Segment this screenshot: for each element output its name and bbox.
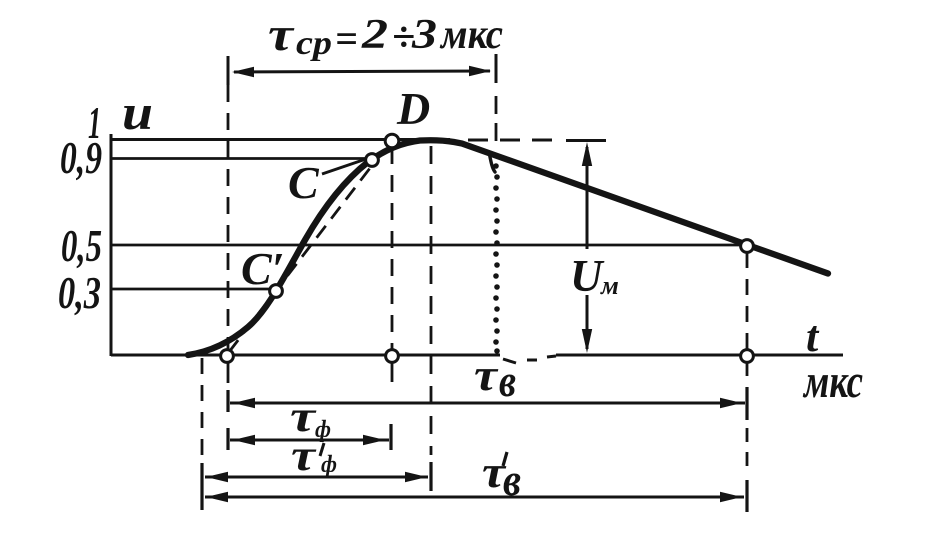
node circle on baseline at x=228 xyxy=(221,350,234,363)
x axis t (baseline) xyxy=(111,355,843,363)
svg-text:мкс: мкс xyxy=(439,12,503,58)
svg-text:0,5: 0,5 xyxy=(61,220,102,271)
tf' double arrow (row 3) xyxy=(205,476,428,479)
dashed vertical at 0.5 crossing x=747 xyxy=(746,252,749,380)
svg-text:τ: τ xyxy=(474,349,499,400)
tf double arrow (row 2) xyxy=(230,439,389,442)
svg-text:2: 2 xyxy=(361,12,388,58)
svg-text:U: U xyxy=(570,251,605,301)
svg-text:C′: C′ xyxy=(241,243,285,294)
dotted vertical tb x=497 xyxy=(493,163,500,354)
svg-text:0,9: 0,9 xyxy=(60,132,102,183)
svg-text:ф: ф xyxy=(315,417,331,443)
svg-text:в: в xyxy=(499,355,516,406)
svg-text:τ: τ xyxy=(291,431,317,480)
level line 0.3 xyxy=(111,288,271,291)
svg-text:в: в xyxy=(503,454,521,505)
node circle on decay at 0.5 level xyxy=(741,240,754,253)
node circle C' xyxy=(270,285,283,298)
svg-text:ф: ф xyxy=(321,452,337,478)
svg-text:D: D xyxy=(396,83,430,134)
tb' double arrow (row 4) xyxy=(205,496,744,499)
short dashed vertical below right tick of tcp arrow x=496 xyxy=(495,96,498,143)
y axis u xyxy=(110,134,113,356)
dashed extension of 1.0 level xyxy=(468,139,562,142)
node circle on baseline at x=747 xyxy=(741,350,754,363)
svg-text:3: 3 xyxy=(411,12,437,58)
dashed vertical left x=202 xyxy=(201,358,204,458)
tcp double arrow xyxy=(234,71,490,72)
dashed vertical at D x=392 xyxy=(391,147,394,357)
svg-text:C: C xyxy=(288,157,320,208)
dashed vertical at pulse start x=228 xyxy=(227,57,230,356)
node circle C xyxy=(366,154,379,167)
svg-text:ср: ср xyxy=(296,25,332,62)
svg-text:u: u xyxy=(122,84,153,140)
node circle on baseline at x=392 xyxy=(386,350,399,363)
pulse waveform curve xyxy=(188,140,828,355)
svg-text:0,3: 0,3 xyxy=(58,267,101,318)
level line 0.5 xyxy=(111,244,743,247)
svg-text:мкс: мкс xyxy=(802,355,863,408)
svg-text:t: t xyxy=(806,312,820,361)
tcp arrow ticks xyxy=(227,56,230,85)
pointer line from label C to point C xyxy=(322,159,366,174)
tb duration double arrow (row 1) xyxy=(230,402,745,405)
svg-text:τ: τ xyxy=(268,8,295,61)
level line 0.9 xyxy=(111,157,368,160)
Um vertical double arrow xyxy=(586,147,589,249)
dashed vertical at peak x=431 xyxy=(430,146,433,455)
svg-text:=: = xyxy=(335,16,358,61)
node circle D xyxy=(385,134,399,148)
svg-text:м: м xyxy=(600,271,619,300)
dashed tangent line through C' and C xyxy=(229,142,390,352)
tick at top of Um arrow xyxy=(566,139,606,142)
level line 1.0 xyxy=(111,138,450,141)
small notch tick on curve at tb xyxy=(489,152,495,172)
